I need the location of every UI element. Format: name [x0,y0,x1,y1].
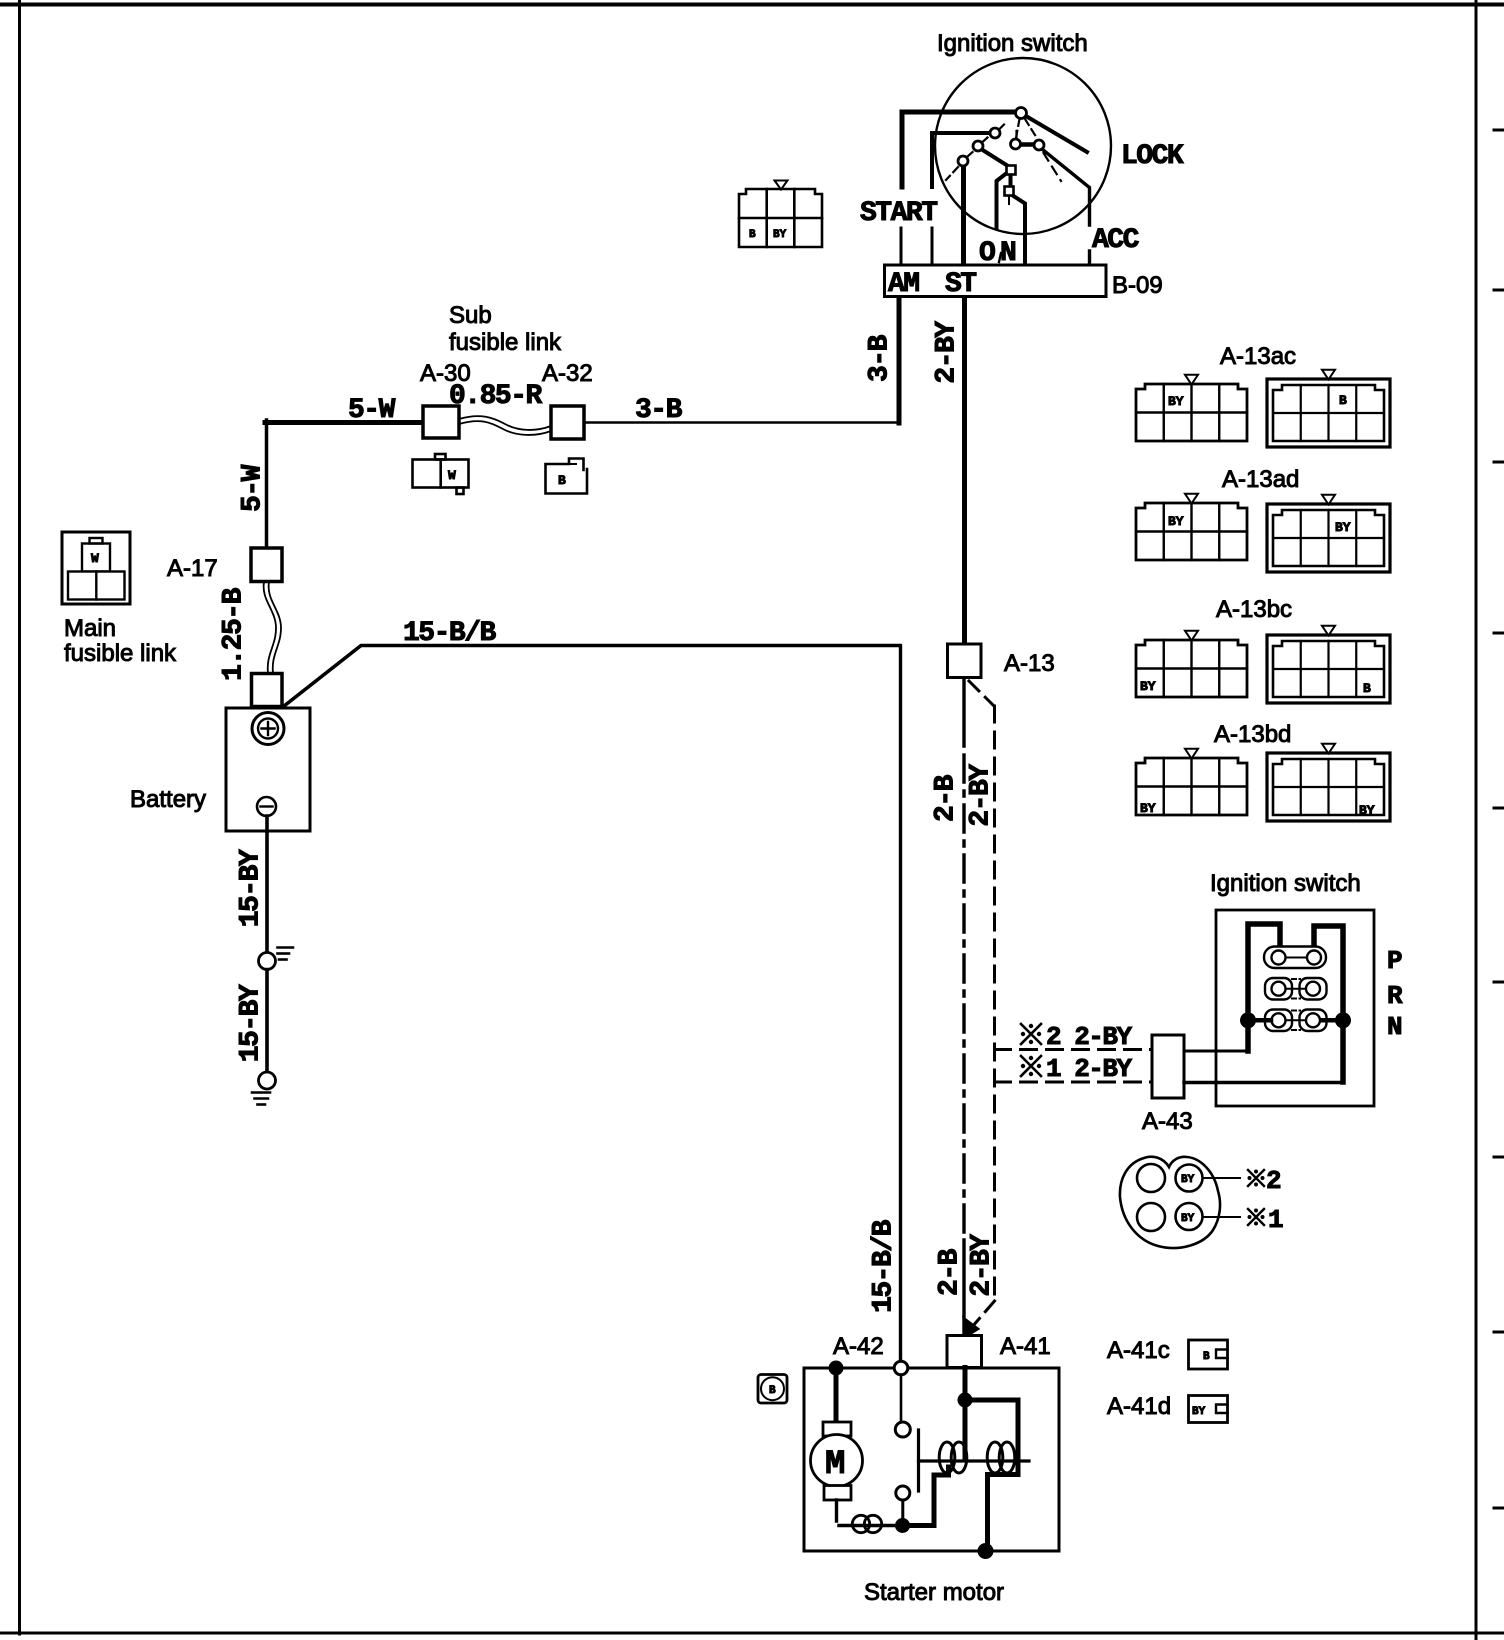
svg-text:A-13bd: A-13bd [1214,721,1291,748]
wire 5-W vertical [265,420,269,548]
svg-text:B: B [1363,681,1371,696]
inner bold wiring right [1314,926,1343,1082]
svg-text:B: B [558,473,566,488]
connector A-13ac left [1136,384,1247,441]
connector A-43 [1152,1035,1184,1098]
triangle marker B/BY [775,181,788,190]
connector A-32 [551,406,584,439]
right edge ticks [1494,130,1504,1508]
dashed below contact4 [946,167,958,180]
svg-text:BY: BY [1140,679,1156,694]
svg-text:2-B: 2-B [930,774,961,822]
ignition switch P R N box [1216,910,1374,1106]
svg-text:A-41c: A-41c [1107,1337,1170,1364]
wire 5-W horizontal [265,420,424,425]
svg-text:A-32: A-32 [542,360,593,387]
svg-text:B: B [769,1385,776,1397]
svg-text:Sub: Sub [449,302,492,329]
svg-text:2: 2 [1266,1166,1281,1196]
leader to no2 [1203,1177,1241,1179]
contact 5 [1011,139,1021,149]
junction dot bottom [978,1543,994,1559]
wire 2-BY dashed diagonal from A-13 [969,681,994,706]
page border top [0,3,1504,7]
ignition switch circle [935,58,1111,234]
coil2 loops [987,1442,1003,1473]
svg-text:P: P [1387,946,1402,976]
wire START resume [901,228,932,265]
pin BY upper [1176,1165,1203,1192]
svg-text:A-43: A-43 [1142,1108,1193,1135]
pin blank upper [1137,1164,1165,1192]
svg-text:15-B/B: 15-B/B [868,1219,899,1313]
connector A-41d [1189,1396,1228,1423]
svg-text:BY: BY [1140,801,1156,816]
connector A-41 [947,1336,982,1368]
leader to no1 [1203,1216,1241,1218]
svg-text:1: 1 [1268,1205,1283,1235]
connector A-41c [1189,1340,1228,1369]
wire A-43 to P-R-N no2 [1184,1050,1248,1053]
svg-text:BY: BY [1168,514,1184,529]
connector A-13ad left [1136,503,1247,560]
wire square7 elbow to ON column [997,172,1009,228]
junction dot left [1240,1012,1256,1028]
wavy wire 0.85-R [459,416,551,430]
switch contact upper [895,1422,910,1437]
label no2 2-BY [1021,1024,1041,1044]
svg-text:W: W [91,551,99,566]
pin blank lower [1137,1203,1165,1231]
connector A-13bd left [1136,758,1247,815]
connector A-30 [423,406,459,438]
pivot contact [1016,108,1027,119]
svg-text:BY: BY [1359,803,1375,818]
svg-text:fusible link: fusible link [64,640,177,667]
junction dot A-42 [829,1361,844,1376]
N row pins [1265,1010,1292,1032]
inner bold wiring left [1248,924,1280,1051]
battery minus terminal [257,797,276,816]
ground mid node [259,953,276,970]
coil1 loops [939,1442,955,1473]
junction dot solenoid [958,1393,973,1408]
svg-text:2-BY: 2-BY [965,764,996,827]
label no1 2-BY [1021,1056,1041,1076]
svg-text:BY: BY [1181,1213,1195,1225]
wire AM feed (to pivot) [902,112,1018,187]
svg-text:A-41: A-41 [1000,1333,1051,1360]
main fusible link icon [62,532,130,604]
label no1 [1248,1209,1265,1226]
svg-text:LOCK: LOCK [1121,141,1184,172]
connector A-13bd right [1267,753,1390,821]
contact 2 [990,128,1000,138]
wire solenoid branch [965,1400,1018,1548]
svg-text:ACC: ACC [1092,225,1140,256]
switch contact lower [896,1486,910,1500]
wire 2-BY below B-09 [962,298,967,644]
battery box [226,708,310,831]
wire lower contact to dot [901,1500,904,1519]
wire dashed branch no2 [995,1048,1153,1051]
connector A-13bc right [1267,635,1390,703]
svg-text:B: B [749,229,756,241]
svg-text:Ignition switch: Ignition switch [1210,870,1361,897]
wire A-43 to P-R-N no1 [1184,1081,1343,1084]
wire 15-B/B horizontal + diagonal to battery [282,646,901,709]
ON line comma mark [999,253,1001,262]
svg-text:N: N [1387,1012,1401,1042]
connector A-13bc left [1136,640,1247,697]
wire contact3 to square7 [981,149,1008,166]
starter motor box [804,1368,1059,1551]
contact ticks [967,125,1004,158]
svg-text:ST: ST [945,269,976,300]
svg-text:BY: BY [1335,520,1351,535]
arrowhead at A-41 [963,1317,979,1337]
svg-text:A-13ac: A-13ac [1220,343,1296,370]
wire motor to dot with coil [837,1500,897,1526]
coil line [919,1459,1030,1462]
wire 15-B/B vertical [899,646,902,1362]
svg-text:3-B: 3-B [864,334,895,382]
junction dot lower [895,1518,910,1533]
connector A-13 [948,644,982,678]
motor brush top [823,1422,851,1436]
R row pins [1265,978,1292,1000]
svg-text:A-13ad: A-13ad [1222,466,1299,493]
wire ST (contact4 down) [961,166,966,265]
svg-text:A-17: A-17 [167,555,218,582]
svg-text:B: B [1203,1351,1210,1363]
pin BY lower [1176,1203,1203,1230]
svg-text:Main: Main [64,615,116,642]
svg-text:A-13bc: A-13bc [1216,596,1292,623]
svg-text:BY: BY [1181,1174,1195,1186]
dashed pivot to contact6 [1025,119,1038,139]
dashed pivot to contact5 [1016,119,1020,138]
wire 15-BY upper [265,816,269,953]
switch wire from node [900,1375,903,1422]
connector A-43 pin view outline [1120,1157,1220,1248]
svg-text:B: B [1339,393,1347,408]
svg-text:1.25-B: 1.25-B [218,587,249,681]
wire 2-B dash-dot [962,678,965,746]
label no2 [1248,1170,1265,1187]
connector B-09 box [885,265,1107,297]
connector A-13ac right [1267,379,1390,447]
connector B/BY (top left) [739,189,822,247]
svg-text:0.85-R: 0.85-R [449,381,543,412]
contact 3 [973,141,983,151]
svg-text:W: W [448,468,456,483]
switch blade [917,1430,920,1491]
N row junction stubs [1252,1018,1339,1023]
svg-text:START: START [860,198,937,229]
wire square8 elbow down [1012,195,1025,265]
battery top connector [252,674,283,707]
svg-text:15-BY: 15-BY [235,849,266,927]
svg-text:Battery: Battery [130,786,206,813]
small coil loops [852,1515,869,1532]
wire 3-B below B-09 [897,298,902,423]
svg-text:2 2-BY: 2 2-BY [1046,1022,1133,1052]
page border right [1475,0,1478,1640]
svg-text:5-W: 5-W [237,464,268,512]
dashed below contact6 [1044,153,1062,181]
wire A-41 to coils [963,1368,968,1460]
svg-text:BY: BY [773,229,787,241]
contact 6 [1034,140,1044,150]
connector A-13ad right [1267,504,1390,572]
junction dot right [1335,1012,1351,1028]
svg-text:AM: AM [888,269,919,300]
svg-text:1 2-BY: 1 2-BY [1046,1054,1133,1084]
svg-text:15-BY: 15-BY [235,984,266,1062]
fusible link icon B (below A-32) [546,459,588,494]
svg-text:BY: BY [1192,1406,1206,1418]
svg-text:A-41d: A-41d [1107,1393,1171,1420]
svg-text:fusible link: fusible link [449,329,562,356]
svg-text:Starter motor: Starter motor [864,1579,1004,1606]
square contact 8 [1005,187,1014,196]
square8 stubs [1009,180,1011,204]
wire contact2 feed [932,133,990,187]
connector icon B (square) [758,1375,787,1404]
wire ACC below text [1088,251,1091,265]
wavy wire 1.25-B [264,582,276,673]
svg-text:2-B: 2-B [934,1248,965,1296]
page border left [18,0,21,1634]
wire 2-BY dashed diagonal to arrow [972,1301,995,1327]
svg-text:Ignition switch: Ignition switch [937,30,1088,57]
wire dot to coil1 [909,1467,949,1526]
connector A-17 [251,548,282,582]
wire 3-B horizontal [584,421,899,424]
motor brush bottom [824,1486,851,1501]
contact 4 [958,156,968,166]
svg-text:B-09: B-09 [1112,272,1163,299]
ground bottom node [259,1072,276,1089]
contact5 stub [1015,131,1017,138]
P row pins [1264,947,1326,969]
wire contact6 to ACC [1043,150,1090,226]
svg-text:A-42: A-42 [833,1333,884,1360]
open node on box top [894,1361,908,1375]
battery plus terminal [252,713,284,745]
LOCK pointer [1025,116,1087,153]
wire A-42 to motor [834,1368,839,1422]
square contact 7 [1007,166,1016,175]
wire 2-BY dashed vertical [993,706,996,1301]
wire dashed branch no1 [995,1081,1153,1084]
svg-text:BY: BY [1168,394,1184,409]
wire bar contacts 5-6 [1019,142,1034,147]
wire square7-square8 [1009,174,1013,187]
svg-text:A-13: A-13 [1004,650,1055,677]
svg-text:2-BY: 2-BY [931,321,962,384]
page border bottom [0,1632,1504,1635]
svg-text:M: M [825,1446,845,1484]
motor M [811,1435,863,1487]
svg-text:2-BY: 2-BY [966,1234,997,1297]
wire 15-BY lower [265,970,269,1073]
svg-text:R: R [1387,981,1403,1011]
fusible link icon W (below A-30) [413,454,469,494]
